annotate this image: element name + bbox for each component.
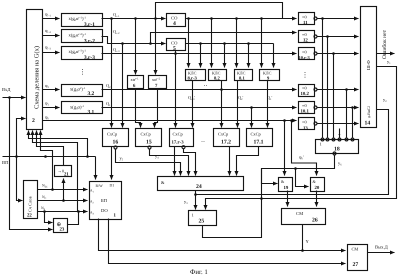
AND block 19 — [279, 178, 293, 192]
wire KLC 8.г-3 output down (Q г-3 prime) — [188, 81, 195, 128]
wire 10.2 output to 14 — [317, 89, 359, 91]
svg-text:1: 1 — [320, 142, 322, 147]
svg-text:10.2: 10.2 — [301, 91, 310, 97]
svg-text:20: 20 — [315, 185, 320, 191]
wire riser into 16 left (from Q г-1) — [111, 19, 113, 128]
svg-text:СО: СО — [171, 15, 178, 20]
counter CM 27 — [348, 245, 368, 271]
OR block 18 — [316, 138, 359, 155]
svg-text:DO: DO — [101, 208, 108, 213]
svg-text:D1: D1 — [110, 184, 115, 188]
wire block 7 output into 15 right — [155, 89, 158, 128]
wire 17.г-3 outputs into AND 24 — [174, 147, 176, 176]
wire drops from Q г-1 row into KLC left pins — [188, 19, 190, 68]
svg-text:Вых.Д: Вых.Д — [375, 245, 389, 250]
output y2 wire — [196, 97, 389, 195]
wire ВП down to counter 22 — [17, 157, 23, 201]
svg-text:17.2: 17.2 — [221, 140, 231, 146]
svg-text:2: 2 — [32, 118, 35, 124]
svg-text:23: 23 — [60, 227, 65, 233]
svg-text:25: 25 — [199, 219, 205, 225]
wire riser into 16 right (from Q г-2) — [122, 44, 124, 128]
svg-text:16: 16 — [113, 140, 119, 146]
comparator 13 — [299, 118, 318, 132]
svg-text:⋮: ⋮ — [302, 71, 309, 79]
svg-text:БП: БП — [101, 198, 108, 203]
multiplier 6 — [128, 76, 144, 90]
wire KLC 8.2 output down — [222, 81, 244, 128]
svg-text:19: 19 — [284, 185, 289, 191]
svg-text:Схема деления на G(x): Схема деления на G(x) — [33, 46, 40, 109]
divider block 2 (Схема деления на G(x)) — [27, 10, 43, 130]
svg-text:Фиг. 1: Фиг. 1 — [190, 269, 208, 276]
svg-text:СО: СО — [171, 40, 178, 45]
wire Nб branch down into 23 — [45, 212, 53, 223]
svg-text:СМ: СМ — [352, 247, 359, 252]
feedback bypass to block 12 — [151, 33, 297, 44]
svg-text:=0: =0 — [302, 32, 307, 37]
svg-text:СМ: СМ — [296, 211, 303, 216]
svg-text:22: 22 — [27, 213, 32, 219]
wire riser into AND 20 top from phi0 line — [292, 121, 317, 176]
comparator 10.1 — [299, 102, 318, 115]
svg-text:12: 12 — [303, 38, 308, 44]
svg-text:17.г-3: 17.г-3 — [172, 140, 185, 146]
svg-text:26: 26 — [312, 218, 318, 224]
svg-text:СхСр: СхСр — [251, 131, 262, 136]
svg-text:=0: =0 — [302, 120, 307, 125]
svg-text:=0: =0 — [302, 49, 307, 54]
control line ВП — [2, 155, 96, 165]
multiplier 3.2 — [62, 85, 103, 98]
wire AND19 output to CM26 — [287, 191, 289, 207]
wire БП DO output to CM27 lower input — [109, 219, 346, 264]
svg-text:СхСр: СхСр — [218, 131, 229, 136]
address line A2 (Nс) — [38, 195, 88, 202]
wire 13 output to 14 — [317, 123, 359, 125]
multiplier 3.1 — [62, 102, 103, 116]
wire risers down into block 18 — [322, 19, 324, 138]
comparator СхСр 17.2 — [214, 129, 240, 147]
comparator СхСр 17.1 — [247, 129, 273, 147]
svg-text:СхСр: СхСр — [141, 131, 152, 136]
wire 10.г-3 output to 14 — [317, 53, 359, 55]
svg-text:21: 21 — [64, 172, 69, 178]
KLC 8.г-3 — [186, 70, 206, 81]
wire phi г-2 — [43, 28, 60, 36]
svg-text:R/W: R/W — [96, 184, 104, 188]
svg-text:Сч Слов: Сч Слов — [28, 196, 33, 212]
wire CO5 bottom drop to 17.г-3 — [175, 51, 177, 128]
wire phi 1 — [43, 101, 60, 108]
multiplier 3.г-1 — [62, 14, 103, 28]
wire into block 7 — [155, 19, 157, 75]
wire Q2 row (long to 10.2) — [102, 83, 297, 91]
multiplier 7 — [149, 76, 167, 90]
register block 14 — [361, 7, 377, 128]
wire 16 output у5 to AND 20 top — [116, 149, 181, 176]
AND block 20 — [311, 178, 325, 192]
KLC 8.2 — [209, 70, 227, 81]
error selector CO 4 — [167, 14, 186, 28]
wire Q г-1 row — [102, 12, 297, 20]
wire 18 output to riser 261 and AND 19 — [262, 156, 343, 184]
wire into 21 bottom — [63, 179, 65, 201]
wire KLC 8.1 output down — [252, 95, 273, 128]
svg-text:4: 4 — [173, 21, 176, 27]
wire Q г-3 row (long to 10.г-3) — [102, 47, 297, 55]
svg-text:СхСр: СхСр — [173, 131, 184, 136]
feedback bypass over CO4 — [156, 3, 283, 19]
svg-text:д-ВнС2: д-ВнС2 — [367, 106, 371, 118]
multiplier 3.г-3 — [62, 47, 103, 61]
wire 17.2 output into AND 24 — [229, 147, 231, 176]
svg-text:3.1: 3.1 — [88, 109, 95, 115]
wire drops from Q г-2 row into KLC right pins — [200, 44, 202, 68]
counter CM 26 — [282, 209, 326, 225]
svg-text:27: 27 — [353, 262, 359, 268]
wire Q1 row (long to 10.1) — [102, 101, 297, 109]
svg-text:‥: ‥ — [204, 82, 208, 88]
wire phi 2 — [43, 83, 60, 90]
svg-text:8.1: 8.1 — [239, 76, 245, 81]
wire 11 output to 14 — [317, 18, 359, 20]
comparator 11 — [299, 13, 318, 27]
wire phi0 riser into AND 19 top — [284, 121, 286, 176]
svg-text:3.г-3: 3.г-3 — [84, 55, 95, 61]
input ВхД — [2, 87, 26, 99]
svg-text:17.1: 17.1 — [254, 140, 264, 146]
wire 25 output feedback riser — [203, 169, 262, 238]
svg-text:14: 14 — [365, 121, 371, 127]
error selector CO 5 — [167, 39, 186, 53]
wire phi г-1 — [43, 12, 60, 19]
wire riser into 17.2 right — [237, 81, 239, 128]
svg-text:СхСр: СхСр — [107, 131, 118, 136]
wire AND20 output to CM26 — [316, 191, 318, 207]
svg-text:‥: ‥ — [338, 132, 341, 137]
wire AND 24 output y3 to block 25 — [184, 191, 197, 210]
wire block 6 output into 15 left — [136, 89, 141, 128]
word counter 22 — [24, 181, 38, 219]
address line A3 (Nб) — [38, 206, 88, 213]
svg-text:24: 24 — [196, 184, 202, 190]
svg-text:ВП: ВП — [2, 160, 9, 165]
wire 17.1 output into AND 24 — [237, 147, 259, 176]
svg-text:=0: =0 — [302, 14, 307, 19]
svg-text:13: 13 — [303, 125, 308, 131]
svg-text:Ш-Ф: Ш-Ф — [366, 60, 371, 70]
svg-text:3.г-2: 3.г-2 — [84, 38, 95, 44]
comparator 10.2 — [299, 85, 318, 98]
output Ошибок нет — [377, 29, 395, 59]
wire БП second output (Y line) to CM27 upper input — [99, 219, 346, 251]
svg-text:Ошибок нет: Ошибок нет — [382, 29, 388, 59]
KLC 8.1 — [235, 70, 253, 81]
comparator СхСр 17.г-3 — [170, 129, 194, 149]
svg-text:3.2: 3.2 — [88, 91, 95, 97]
svg-text:=0: =0 — [302, 86, 307, 91]
buffer memory block 1 (БП) — [90, 182, 122, 220]
svg-text:ВхД: ВхД — [2, 87, 11, 92]
OR latch block 25 — [189, 211, 217, 226]
svg-text:11: 11 — [303, 20, 308, 26]
wire ВП riser to divider block 2 left — [17, 119, 26, 157]
comparator СхСр 15 — [136, 129, 162, 150]
wire 12 output to 14 — [317, 36, 359, 38]
wire phi г-3 — [43, 45, 60, 53]
staircase wires from counter zone up into divider 2 — [41, 131, 53, 190]
multiplier 3.г-2 — [62, 30, 103, 45]
svg-text:⋮: ⋮ — [79, 68, 86, 76]
svg-text:8.2: 8.2 — [214, 76, 220, 81]
wire ВхД down to adder 23 — [10, 98, 53, 230]
comparator СхСр 16 — [103, 129, 129, 150]
address line A1 (Nбс) — [38, 184, 88, 191]
KLC 9 — [260, 70, 280, 81]
svg-text:&: & — [161, 180, 165, 185]
wire 10.1 output to 14 — [317, 107, 359, 109]
wire 23 hook to A3 line — [68, 212, 79, 225]
svg-text:=0: =0 — [302, 103, 307, 108]
svg-text:3.г-1: 3.г-1 — [84, 22, 95, 28]
adder 23 — [54, 219, 68, 233]
output y1 wire — [206, 59, 397, 210]
svg-text:‥: ‥ — [201, 138, 205, 144]
output ВыхД — [368, 245, 395, 253]
wire branch into AND 20 left — [294, 155, 308, 187]
svg-text:15: 15 — [146, 140, 152, 146]
svg-text:8.г-3: 8.г-3 — [188, 76, 198, 81]
wire 15 output у4 to AND 24 — [150, 149, 189, 176]
comparator 12 — [299, 31, 318, 44]
comparator 10.г-3 — [299, 48, 318, 61]
wire 26 output Y — [301, 225, 309, 252]
AND block 24 — [158, 177, 244, 191]
svg-text:10.г-3: 10.г-3 — [299, 55, 311, 60]
wire 16 bottom to D1 — [111, 147, 113, 180]
wire KLC 9 output down — [267, 81, 269, 128]
wire Q г-2 row with jog — [102, 29, 274, 45]
svg-text:1: 1 — [192, 213, 194, 218]
wire into block 6 — [135, 19, 137, 75]
wire ВП down to R/W — [95, 157, 97, 180]
zero-set block 21 — [55, 166, 72, 178]
svg-text:10.1: 10.1 — [301, 109, 310, 115]
wire phi 0 (long line to block 13) — [43, 115, 297, 122]
